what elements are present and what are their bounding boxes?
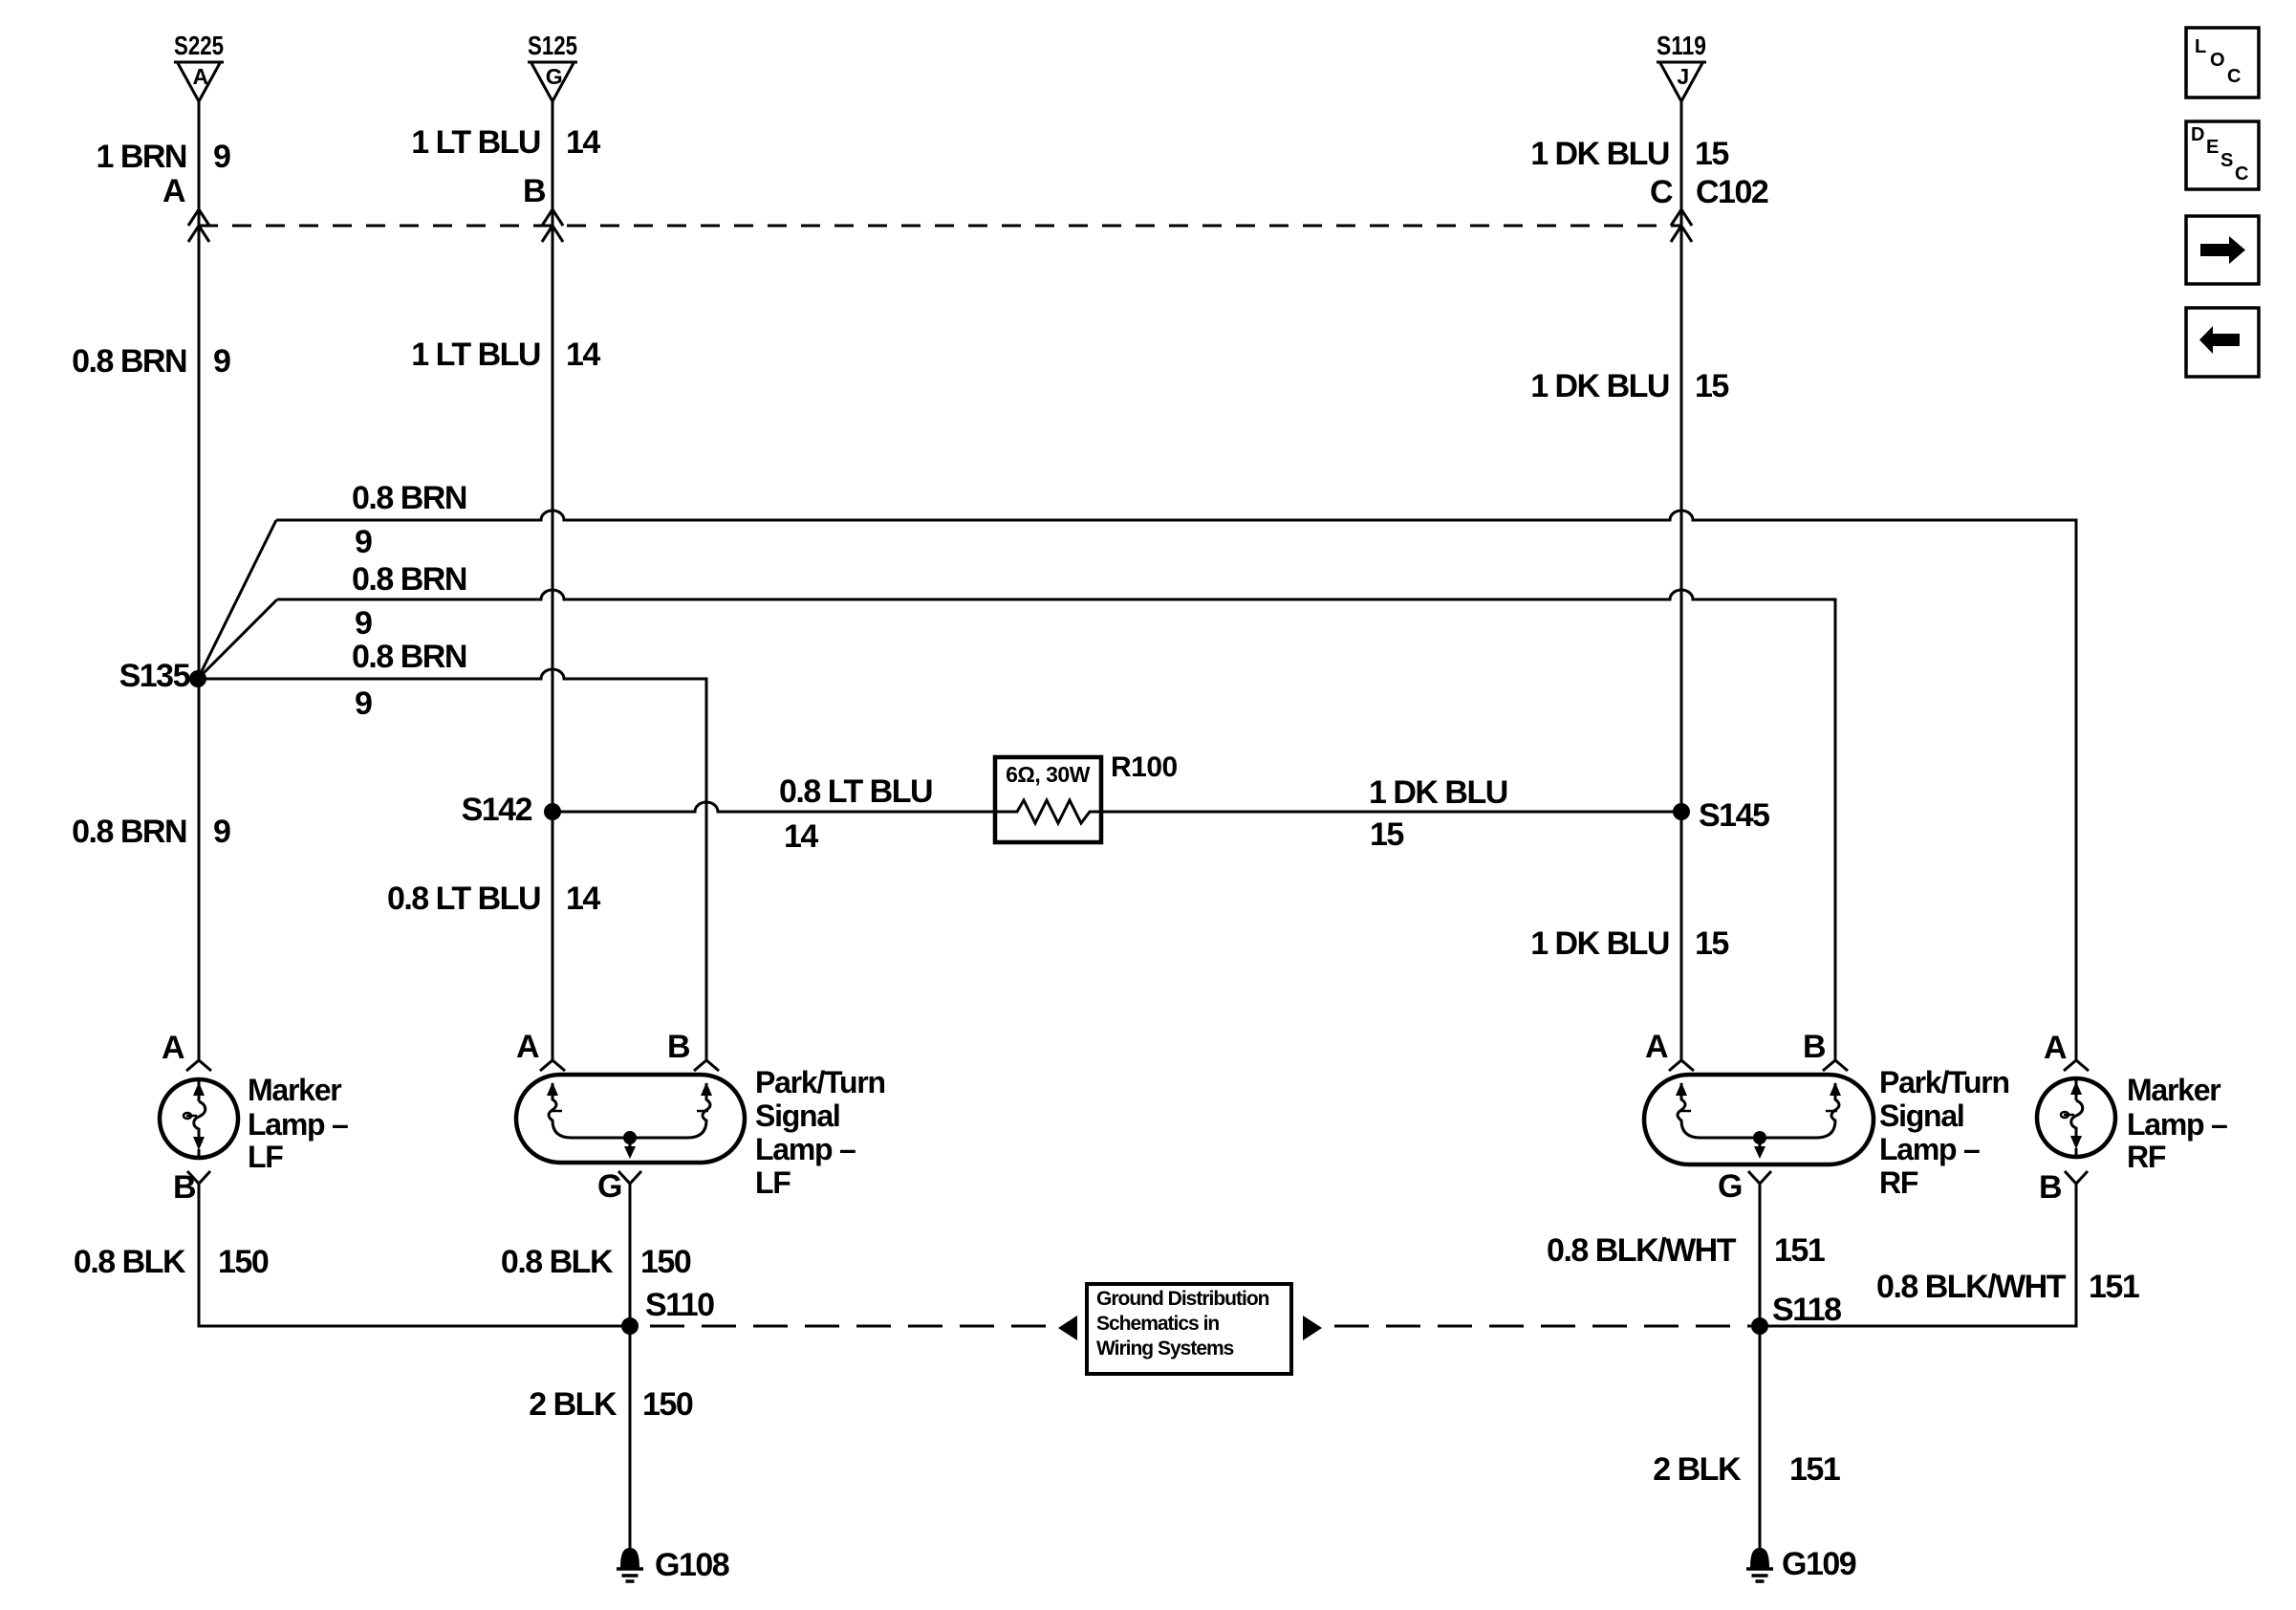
park/turn RF filaments and internal bus: [1678, 1083, 1839, 1152]
svg-text:Park/Turn: Park/Turn: [755, 1065, 885, 1099]
arrowhead left of box: [1058, 1316, 1077, 1340]
arrowhead right of box: [1303, 1316, 1322, 1340]
svg-text:C: C: [1650, 174, 1673, 210]
svg-text:15: 15: [1695, 368, 1728, 404]
svg-text:0.8 BLK/WHT: 0.8 BLK/WHT: [1547, 1232, 1737, 1269]
svg-text:C: C: [2235, 163, 2248, 185]
pin chevron marker LF A: [186, 1060, 211, 1071]
pin chevron park/turn LF G: [618, 1171, 641, 1184]
svg-text:15: 15: [1695, 925, 1728, 962]
pin chevron park/turn RF B: [1823, 1060, 1848, 1071]
svg-text:S135: S135: [119, 658, 190, 694]
pin chevron marker RF B: [2065, 1171, 2088, 1184]
svg-text:L: L: [2195, 36, 2206, 57]
connector S119 triangle: [1657, 62, 1706, 101]
svg-text:Marker: Marker: [2127, 1073, 2220, 1107]
svg-text:0.8 BRN: 0.8 BRN: [352, 480, 466, 516]
resistor R100 box: [995, 757, 1101, 842]
svg-text:G109: G109: [1782, 1546, 1856, 1582]
svg-text:S118: S118: [1772, 1292, 1841, 1328]
marker lamp LF body: [160, 1079, 238, 1158]
svg-text:A: A: [1645, 1029, 1668, 1065]
svg-text:15: 15: [1370, 816, 1403, 853]
ground distribution reference box: [1087, 1284, 1291, 1374]
svg-text:0.8 BRN: 0.8 BRN: [352, 639, 466, 675]
svg-text:G108: G108: [655, 1547, 729, 1583]
svg-text:A: A: [192, 64, 207, 89]
marker lamp RF body: [2037, 1078, 2115, 1157]
wire marker RF B to S118: [1760, 1184, 2076, 1326]
DESC legend box: [2186, 121, 2259, 189]
svg-text:15: 15: [1695, 136, 1728, 172]
wire dashed ground distribution box to S118: [1334, 1325, 1751, 1328]
resistor R100 zigzag: [995, 800, 1101, 823]
node A double chevron: [188, 209, 209, 242]
svg-text:1 LT BLU: 1 LT BLU: [411, 124, 540, 161]
wire branch 0.8 BRN 9 (lower, to Park/Turn LF B): [198, 669, 706, 1059]
wire diagonal S135 to middle branch: [198, 599, 277, 679]
svg-text:14: 14: [784, 818, 818, 855]
svg-text:S125: S125: [528, 31, 577, 60]
arrow-left legend box: [2186, 308, 2259, 377]
svg-text:0.8 BRN: 0.8 BRN: [72, 343, 186, 380]
wire 0.8 LT BLU from S142 to R100: [552, 802, 995, 812]
svg-text:0.8 LT BLU: 0.8 LT BLU: [387, 881, 540, 917]
svg-text:151: 151: [1774, 1232, 1825, 1269]
svg-text:1 BRN: 1 BRN: [96, 139, 186, 175]
svg-text:9: 9: [213, 814, 230, 850]
svg-text:Schematics in: Schematics in: [1096, 1313, 1219, 1335]
node C double chevron: [1671, 209, 1692, 242]
svg-text:B: B: [1803, 1029, 1826, 1065]
svg-text:1 DK BLU: 1 DK BLU: [1530, 368, 1669, 404]
node B double chevron: [542, 209, 563, 242]
svg-text:B: B: [523, 173, 546, 209]
svg-text:150: 150: [218, 1244, 269, 1280]
svg-text:2 BLK: 2 BLK: [1653, 1451, 1742, 1488]
splice S110: [621, 1317, 639, 1335]
wire DK BLU vertical (S119 line, circuit 15): [1680, 101, 1683, 1059]
svg-text:9: 9: [355, 605, 372, 642]
svg-text:Lamp –: Lamp –: [755, 1132, 856, 1166]
splice S145: [1673, 803, 1690, 820]
svg-text:151: 151: [2089, 1269, 2139, 1305]
svg-text:0.8 BLK: 0.8 BLK: [501, 1244, 614, 1280]
svg-text:Ground Distribution: Ground Distribution: [1096, 1288, 1269, 1310]
splice S142: [544, 803, 561, 820]
svg-text:Signal: Signal: [755, 1099, 840, 1133]
svg-text:B: B: [2039, 1169, 2062, 1206]
svg-text:S: S: [2220, 150, 2233, 171]
connector S125 triangle: [528, 62, 577, 101]
svg-text:Marker: Marker: [248, 1073, 341, 1107]
svg-text:Lamp –: Lamp –: [248, 1107, 348, 1142]
marker lamp LF filament: [186, 1079, 206, 1158]
svg-text:9: 9: [355, 524, 372, 560]
svg-text:9: 9: [355, 685, 372, 722]
svg-text:Lamp –: Lamp –: [2127, 1107, 2227, 1142]
svg-text:S225: S225: [174, 31, 224, 60]
park/turn signal lamp RF body: [1644, 1075, 1874, 1164]
svg-text:R100: R100: [1111, 751, 1178, 783]
ground G108 symbol: [617, 1548, 643, 1581]
marker lamp RF filament: [2064, 1078, 2083, 1157]
svg-text:J: J: [1677, 64, 1688, 89]
svg-text:0.8 BRN: 0.8 BRN: [352, 561, 466, 598]
park/turn signal lamp LF body: [516, 1075, 745, 1163]
arrow-right legend box: [2186, 216, 2259, 284]
svg-text:RF: RF: [2127, 1140, 2166, 1174]
wire marker LF B to S110: [199, 1184, 630, 1326]
svg-text:B: B: [667, 1029, 690, 1065]
wire park/turn RF G down to ground G109: [1759, 1184, 1762, 1549]
svg-text:0.8 BRN: 0.8 BRN: [72, 814, 186, 850]
svg-text:6Ω, 30W: 6Ω, 30W: [1006, 762, 1091, 787]
svg-text:C102: C102: [1696, 174, 1768, 210]
svg-text:150: 150: [640, 1244, 691, 1280]
svg-text:Lamp –: Lamp –: [1879, 1132, 1980, 1166]
pin chevron park/turn RF A: [1669, 1060, 1694, 1071]
wire dashed S110 to ground distribution box: [650, 1325, 1051, 1328]
svg-text:9: 9: [213, 139, 230, 175]
wire BRN vertical (left, circuit 9): [198, 101, 201, 1059]
pin chevron marker RF A: [2064, 1060, 2089, 1071]
svg-text:9: 9: [213, 343, 230, 380]
pin chevron park/turn RF G: [1748, 1171, 1771, 1184]
svg-text:RF: RF: [1879, 1165, 1918, 1200]
wire diagonal S135 to top branch: [198, 520, 276, 679]
svg-text:S119: S119: [1657, 31, 1706, 60]
wire branch 0.8 BRN 9 (middle, to Park/Turn RF B): [277, 590, 1835, 1059]
pin chevron marker LF B: [187, 1171, 210, 1184]
svg-text:S145: S145: [1699, 797, 1769, 834]
wire 1 DK BLU from R100 to S145: [1101, 811, 1681, 814]
splice S135: [189, 670, 206, 687]
svg-text:B: B: [173, 1169, 196, 1206]
svg-text:LF: LF: [755, 1165, 791, 1200]
svg-text:0.8 LT BLU: 0.8 LT BLU: [779, 773, 932, 810]
svg-text:1 DK BLU: 1 DK BLU: [1369, 774, 1507, 811]
svg-text:E: E: [2206, 137, 2219, 158]
LOC legend box: [2186, 28, 2259, 98]
wire LT BLU vertical (S125 line, circuit 14): [552, 101, 554, 1059]
svg-text:14: 14: [566, 124, 600, 161]
svg-text:S142: S142: [462, 792, 532, 828]
svg-text:S110: S110: [645, 1287, 714, 1323]
svg-text:151: 151: [1789, 1451, 1840, 1488]
svg-text:LF: LF: [248, 1140, 283, 1174]
svg-text:1 DK BLU: 1 DK BLU: [1530, 136, 1669, 172]
park/turn LF filaments and internal bus: [549, 1083, 710, 1152]
svg-text:D: D: [2191, 124, 2204, 145]
svg-text:0.8 BLK/WHT: 0.8 BLK/WHT: [1876, 1269, 2067, 1305]
wire dashed connector C102 line: [199, 225, 1681, 228]
svg-text:A: A: [162, 173, 185, 209]
svg-text:A: A: [162, 1030, 184, 1066]
svg-text:G: G: [597, 1168, 621, 1205]
svg-text:C: C: [2227, 66, 2241, 87]
splice S118: [1751, 1317, 1768, 1335]
wire branch 0.8 BRN 9 (top, to Marker RF A): [276, 511, 2076, 1059]
svg-text:14: 14: [566, 881, 600, 917]
svg-text:1 DK BLU: 1 DK BLU: [1530, 925, 1669, 962]
wire park/turn LF G down to ground G108: [629, 1184, 632, 1549]
svg-text:G: G: [546, 64, 562, 89]
svg-text:Signal: Signal: [1879, 1099, 1964, 1133]
pin chevron park/turn LF B: [694, 1060, 719, 1071]
svg-text:150: 150: [642, 1386, 693, 1423]
svg-text:O: O: [2210, 50, 2225, 71]
svg-text:0.8 BLK: 0.8 BLK: [74, 1244, 186, 1280]
svg-text:Wiring Systems: Wiring Systems: [1096, 1338, 1234, 1360]
svg-text:G: G: [1718, 1168, 1742, 1205]
connector S225 triangle: [174, 62, 224, 101]
pin chevron park/turn LF A: [540, 1060, 565, 1071]
ground G109 symbol: [1746, 1548, 1773, 1581]
svg-text:1 LT BLU: 1 LT BLU: [411, 337, 540, 373]
svg-text:2 BLK: 2 BLK: [529, 1386, 617, 1423]
svg-text:Park/Turn: Park/Turn: [1879, 1065, 2009, 1099]
svg-text:A: A: [516, 1029, 539, 1065]
svg-text:14: 14: [566, 337, 600, 373]
svg-text:A: A: [2044, 1030, 2067, 1066]
